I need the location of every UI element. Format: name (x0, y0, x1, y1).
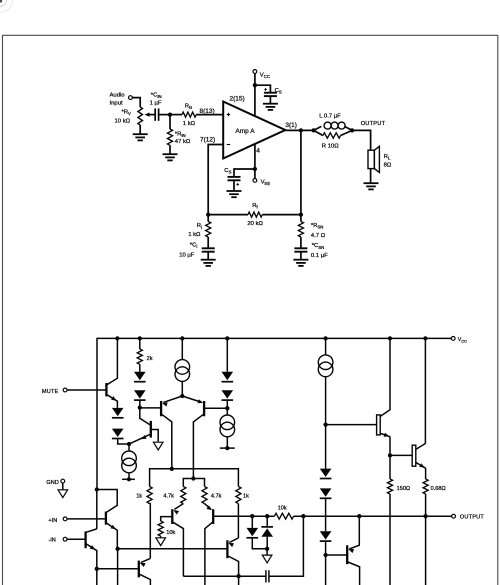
Q2 collector (162, 414, 172, 469)
stub rail I3 (122, 478, 135, 480)
Qout2 emitter (416, 462, 426, 468)
node comp cap (236, 574, 240, 578)
wire (169, 115, 171, 129)
wire (233, 180, 235, 191)
node L right (350, 128, 354, 132)
node input (168, 112, 172, 116)
resistor 10k left (158, 521, 163, 536)
current source I1 (181, 338, 183, 359)
wire (425, 494, 427, 585)
transistor Q2 bar (160, 401, 162, 416)
svg-text:RB: RB (185, 104, 192, 111)
terminal GND (61, 479, 65, 483)
rail arrow clamp (262, 555, 272, 563)
transistor Q9 bar (226, 540, 228, 558)
plus mark (236, 183, 239, 185)
node L left (311, 128, 315, 132)
Q10 collector (348, 562, 360, 585)
node bias2 (225, 406, 229, 410)
svg-text:2k: 2k (147, 356, 153, 362)
wire Qout1 base (326, 424, 377, 426)
node diode tap left (250, 514, 254, 518)
diode D7 (325, 425, 327, 469)
svg-text:10k: 10k (278, 505, 287, 511)
svg-text:Input: Input (110, 101, 123, 107)
svg-text:8Ω: 8Ω (384, 162, 392, 168)
wire (226, 400, 228, 409)
Q1 collector (107, 338, 118, 384)
op-amp minus input mark (227, 144, 230, 146)
node rail I4 (323, 336, 327, 340)
wire (196, 114, 223, 116)
wire (117, 549, 119, 585)
Q1 emitter (107, 395, 118, 408)
left rail wire (96, 338, 98, 490)
wire (207, 252, 209, 260)
current source I4 (325, 338, 327, 355)
transistor Q8 bar (138, 561, 140, 578)
wire (325, 541, 327, 585)
capacitor CIN (154, 108, 156, 120)
node Q10 emitter tap (357, 514, 361, 518)
speaker RL (368, 150, 374, 168)
diode D5 (226, 338, 228, 371)
wire comp branch (269, 516, 304, 576)
svg-text:VEE: VEE (261, 179, 271, 186)
svg-text:*CSN: *CSN (312, 243, 325, 250)
resistor Ri (206, 222, 211, 238)
Q8 collector (139, 574, 150, 585)
resistor 0.68 (423, 479, 428, 494)
svg-text:20 kΩ: 20 kΩ (247, 221, 263, 227)
wire Q2 base (140, 407, 160, 409)
Q10 emitter (349, 516, 359, 549)
wire (208, 214, 248, 216)
rail arrow 10k (156, 538, 166, 546)
transistor Q3 bar (203, 401, 205, 416)
Q6b emitter (86, 544, 97, 569)
svg-text:OUTPUT: OUTPUT (460, 514, 485, 520)
ground (133, 133, 148, 135)
svg-text:2(15): 2(15) (230, 95, 245, 102)
svg-text:7(12): 7(12) (200, 136, 215, 143)
wire (269, 96, 271, 103)
svg-text:*RSN: *RSN (311, 223, 324, 230)
svg-text:*RV: *RV (122, 109, 132, 116)
svg-text:1k: 1k (243, 494, 249, 500)
wire Q9 base (118, 548, 227, 550)
terminal Audio Input (129, 96, 133, 100)
wire Q8 base (97, 568, 138, 570)
wire (62, 483, 64, 490)
wire pin2 (254, 73, 256, 116)
svg-text:47 kΩ: 47 kΩ (175, 139, 191, 145)
Q5 emitter (205, 504, 212, 510)
current source I2 (226, 408, 228, 415)
stub rail I2 (220, 447, 235, 449)
svg-text:L 0.7 µF: L 0.7 µF (319, 113, 341, 119)
svg-text:Rf: Rf (252, 203, 258, 210)
svg-text:MUTE: MUTE (42, 389, 59, 395)
wire (170, 114, 182, 116)
svg-text:4.7k: 4.7k (211, 494, 222, 500)
wire (96, 569, 98, 585)
diode D9 (320, 531, 332, 539)
Q9 emitter (229, 538, 238, 542)
svg-text:150Ω: 150Ω (397, 486, 411, 492)
wire (160, 536, 162, 538)
resistor 150 (387, 479, 392, 494)
svg-text:10 µF: 10 µF (179, 252, 195, 258)
node VCC (253, 83, 257, 87)
inductor L (314, 126, 322, 130)
svg-text:-IN: -IN (48, 537, 55, 543)
wire (118, 438, 129, 444)
transistor Q10 bar (346, 545, 348, 564)
node Qout1 base (323, 422, 327, 426)
op-amp plus input mark (227, 114, 230, 116)
terminal VEE (253, 179, 257, 183)
Q6a emitter (106, 523, 117, 549)
node rail I1 (180, 336, 184, 340)
diode D3 (134, 372, 146, 380)
clamp diode down (251, 516, 253, 528)
Q4 emitter (174, 504, 183, 510)
wire (352, 130, 371, 150)
Q3 collector (193, 414, 203, 478)
terminal VCC2 (451, 337, 455, 341)
svg-text:Ri: Ri (197, 223, 202, 230)
wire 1k right down (237, 504, 239, 538)
diode D1 (112, 408, 124, 416)
wire pin4 (254, 144, 256, 178)
wire (159, 114, 170, 116)
Q4 collector (173, 522, 184, 576)
terminal VCC (253, 70, 257, 74)
svg-text:10 kΩ: 10 kΩ (115, 119, 131, 125)
node Qout2 base (388, 453, 392, 457)
svg-text:1 µF: 1 µF (150, 101, 162, 107)
wire (132, 98, 140, 107)
diode D6 (222, 390, 234, 398)
resistor 1k right (236, 487, 241, 504)
node left rail mid (95, 487, 99, 491)
resistor 4.7k right (202, 487, 207, 504)
node output (423, 514, 427, 518)
svg-text:3(1): 3(1) (285, 122, 297, 129)
resistor Rf (248, 212, 262, 217)
node rail 2k (138, 336, 142, 340)
wire Q10 base (326, 554, 347, 556)
wire (389, 455, 391, 479)
svg-text:*Ci: *Ci (190, 243, 198, 250)
svg-text:CS: CS (275, 88, 282, 95)
output line (214, 515, 275, 517)
capacitor CSN (294, 247, 307, 249)
node mute emitter (127, 442, 131, 446)
svg-text:VCC: VCC (260, 73, 270, 80)
svg-text:VCC: VCC (458, 337, 467, 344)
resistor 2k (139, 338, 141, 349)
transistor Qout2 bar (412, 445, 416, 466)
terminal +IN (63, 517, 67, 521)
Qout1 emitter (380, 433, 390, 436)
wire (266, 549, 268, 555)
Q5 collector (205, 522, 213, 585)
wire (207, 215, 209, 222)
wire (325, 498, 327, 531)
rail arrow GND (58, 490, 68, 498)
ground (201, 259, 216, 261)
wire (262, 214, 301, 216)
current source I3 (128, 444, 130, 451)
resistor RB (182, 112, 196, 117)
resistor RIN (167, 129, 172, 145)
ground (227, 190, 242, 192)
svg-text:10k: 10k (166, 530, 175, 536)
svg-text:OUTPUT: OUTPUT (361, 121, 386, 127)
transistor Q5 bar (212, 509, 214, 524)
svg-text:Amp A: Amp A (235, 128, 255, 135)
svg-text:CS: CS (224, 168, 231, 175)
potentiometer RV (138, 107, 143, 125)
wire (370, 169, 372, 183)
ground (163, 153, 178, 155)
comp capacitor (265, 570, 267, 582)
capacitor CS bottom (228, 176, 241, 178)
terminal OUTPUT (452, 514, 456, 518)
node Q10 base (323, 553, 327, 557)
wire (139, 400, 141, 408)
transistor Q7 (150, 421, 152, 438)
diode D4 (134, 390, 146, 398)
transistor Q4 bar (171, 509, 173, 524)
svg-text:Audio: Audio (110, 92, 126, 98)
svg-text:4.7 Ω: 4.7 Ω (311, 233, 326, 239)
node feedback left (206, 212, 210, 216)
node emitter -IN (95, 567, 99, 571)
node diode tap right (265, 514, 269, 518)
transistor Q1 mute (105, 383, 107, 396)
wire (67, 538, 85, 540)
Q7 base to rail arrow (151, 430, 158, 442)
diode D2 (112, 429, 124, 437)
transistor Q6a bar (105, 512, 107, 525)
Q2 emitter (163, 396, 182, 402)
Q7 emitter (130, 434, 151, 444)
wire tie rail (150, 469, 239, 487)
node rail Qout2 (423, 336, 427, 340)
wire Qin collectors (97, 490, 117, 513)
wire (183, 575, 266, 577)
clamp diode up (266, 516, 268, 527)
wire (139, 125, 141, 134)
resistor 4.7k left (181, 487, 186, 504)
svg-text:0.68Ω: 0.68Ω (431, 486, 446, 492)
node emitter +IN (115, 547, 119, 551)
wire (300, 237, 302, 248)
terminal -IN (63, 537, 67, 541)
svg-text:GND: GND (46, 480, 58, 486)
node comp top (301, 514, 305, 518)
Q9 collector (228, 556, 239, 585)
wire (300, 252, 302, 260)
svg-text:1 kΩ: 1 kΩ (183, 121, 196, 127)
resistor RSN (298, 222, 303, 238)
Q6b collector (86, 529, 96, 532)
svg-text:*RIN: *RIN (175, 131, 186, 138)
node bias1 (138, 405, 142, 409)
corner artifact (0, 0, 2, 3)
Q3 emitter (182, 396, 202, 402)
transistor Qout1 bar (377, 415, 381, 435)
op-amp U1 Amp A (223, 102, 285, 159)
wire output (285, 129, 313, 131)
svg-text:4: 4 (256, 148, 260, 155)
node clamp bottom (265, 547, 269, 551)
node rail D5 (225, 336, 229, 340)
capacitor Ci (202, 247, 215, 249)
node diff emitters (180, 394, 184, 398)
svg-text:*CIN: *CIN (151, 93, 162, 100)
Q8 emitter (141, 558, 151, 562)
svg-text:0.1 µF: 0.1 µF (311, 253, 328, 259)
Q3 base wire (204, 407, 227, 409)
node rail Qout1 (388, 336, 392, 340)
plus mark (264, 88, 267, 90)
terminal MUTE (63, 388, 67, 392)
capacitor CS top (264, 92, 277, 94)
resistor R parallel (314, 130, 323, 135)
wiper arrow (148, 114, 155, 116)
svg-text:8(13): 8(13) (200, 108, 215, 115)
VCC rail (97, 337, 451, 339)
node VEE (253, 167, 257, 171)
wire Qout2 base (390, 454, 412, 456)
wire from output node (300, 130, 302, 214)
svg-text:1 kΩ: 1 kΩ (188, 232, 201, 238)
wire (389, 494, 391, 585)
wire (169, 145, 171, 154)
svg-text:RL: RL (384, 154, 391, 161)
diode D8 (320, 488, 332, 496)
node 1k tie left (170, 467, 174, 471)
resistor 1k left (147, 487, 152, 504)
resistor 10k comp (274, 513, 293, 519)
ground (293, 259, 308, 261)
transistor Q6b bar (84, 531, 86, 548)
node rail Q1 (115, 336, 119, 340)
wire Q7 collector (140, 408, 150, 425)
wire (255, 85, 271, 93)
Qout1 collector (380, 338, 390, 416)
wire (139, 364, 141, 372)
output line right (294, 515, 452, 517)
svg-text:R 10Ω: R 10Ω (322, 143, 339, 149)
svg-text:1k: 1k (136, 494, 142, 500)
Qout2 collector (416, 338, 426, 449)
wire (207, 237, 209, 248)
wire (234, 169, 255, 177)
wire mute base (67, 389, 106, 391)
wire 1k left down (149, 504, 152, 559)
node 3(1) (299, 128, 303, 132)
wire 4.7k feed (183, 479, 204, 487)
ground (263, 103, 278, 105)
wire (67, 518, 105, 520)
ground (364, 182, 379, 184)
svg-text:+IN: +IN (48, 518, 57, 524)
wire inverting input (208, 145, 223, 215)
Q4 base wire (161, 517, 173, 521)
wire (96, 490, 98, 529)
wire (300, 215, 302, 222)
node feedback right (299, 212, 303, 216)
svg-text:4.7k: 4.7k (163, 494, 174, 500)
node 4.7k feed (191, 476, 195, 480)
